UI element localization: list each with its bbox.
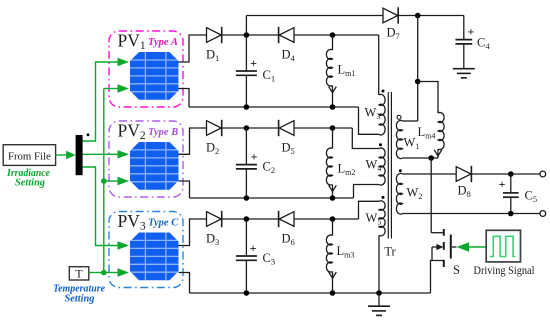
MOSFET S drain contact — [443, 229, 445, 236]
svg-text:C4: C4 — [477, 36, 490, 52]
Lm4 current arrow — [434, 150, 442, 156]
node C1 bottom junction — [244, 104, 250, 110]
junction dot T to PV3 — [101, 270, 107, 276]
wire W1 bottom to Lm4 bottom — [403, 157, 439, 159]
capacitor C2 branch wire top — [245, 128, 247, 165]
node Lm1 bottom junction — [330, 104, 336, 110]
svg-text:Lm3: Lm3 — [337, 244, 355, 260]
inductor Lm1 — [326, 49, 332, 86]
top rail wire to D7 — [246, 15, 383, 17]
node T3 junction — [330, 216, 336, 222]
node W1/Lm4 top junction — [415, 79, 421, 85]
wire From File to demux — [56, 154, 67, 156]
winding W1 — [396, 120, 402, 158]
wire D5 to node T2 — [295, 127, 353, 129]
svg-text:W2: W2 — [407, 186, 423, 202]
capacitor C4 — [455, 39, 472, 41]
temperature bus vertical wire — [103, 89, 105, 273]
row2 bottom rail wire — [190, 197, 354, 199]
node C5 top junction — [508, 171, 514, 177]
capacitor C1 branch wire top — [245, 35, 247, 71]
arrow temperature into PV3 — [118, 268, 130, 276]
node A1 junction — [244, 32, 250, 38]
wire C4 to ground — [463, 44, 465, 56]
capacitor C3 — [236, 255, 257, 257]
junction top rail / secondary bus — [415, 13, 421, 19]
wire demux out1 — [83, 62, 118, 141]
inductor Lm2 top stub — [332, 128, 334, 149]
W4 polarity dot — [379, 143, 382, 146]
winding W3 — [379, 94, 385, 134]
node Lm2 bottom junction — [330, 195, 336, 201]
wire D3 to node A3 — [222, 218, 279, 220]
winding W2 — [396, 173, 402, 214]
svg-text:Setting: Setting — [65, 292, 95, 304]
winding W4 — [379, 148, 385, 185]
arrow temperature into PV1 — [118, 84, 130, 92]
wire drain lead — [431, 232, 444, 234]
transformer core — [387, 92, 389, 239]
capacitor C2 branch wire bottom — [245, 169, 247, 198]
node C2 bottom junction — [244, 195, 250, 201]
wire D6 to node T3 — [295, 218, 359, 220]
wire drive signal to gate — [469, 246, 486, 248]
inductor Lm4 — [438, 112, 444, 149]
green gate drive arrow — [457, 242, 470, 252]
row1 bottom rail wire — [189, 106, 359, 108]
inductor Lm2 — [326, 148, 332, 185]
node C5 bottom junction — [508, 211, 514, 217]
svg-text:From File: From File — [8, 150, 51, 162]
node T1 junction — [330, 32, 336, 38]
svg-text:Type A: Type A — [148, 37, 178, 48]
arrow into demux — [66, 151, 76, 160]
wire bus to W1 top — [403, 120, 418, 122]
wire PV3 plus terminal stub — [179, 219, 207, 246]
wire W5 bottom to ground rail — [378, 235, 380, 293]
svg-text:W3: W3 — [365, 106, 381, 122]
diode D1 — [207, 28, 222, 43]
gate lead stub — [452, 246, 457, 248]
PV module PV3 dashed box (Type C) — [109, 212, 183, 288]
wire junction to Lm4 top — [418, 82, 438, 114]
svg-text:+: + — [250, 56, 257, 70]
diode D8 — [456, 167, 471, 182]
svg-text:D4: D4 — [282, 48, 296, 64]
wire row1 rail to W3 bottom — [359, 107, 380, 134]
diode D4 — [278, 27, 280, 43]
wire W4 bottom to row2 rail — [354, 185, 380, 199]
svg-text:D2: D2 — [206, 141, 219, 157]
wire PV1 minus terminal stub — [179, 89, 190, 108]
capacitor C3 branch wire bottom — [245, 260, 247, 293]
secondary bus wire from top rail — [417, 16, 419, 122]
arrow temperature into PV2 — [118, 177, 130, 185]
svg-text:D8: D8 — [458, 184, 471, 200]
svg-text:+: + — [251, 149, 258, 163]
T temperature source block — [69, 267, 89, 280]
svg-text:S: S — [453, 263, 460, 277]
wire PV1 plus terminal stub — [179, 35, 207, 62]
arrow irradiance into PV2 — [118, 150, 130, 158]
inductor Lm1 top stub — [332, 35, 334, 50]
wire T1 down to winding W3 — [378, 35, 380, 95]
wire demux out3 — [83, 167, 118, 246]
svg-text:Type B: Type B — [148, 127, 178, 138]
W3 polarity dot — [382, 90, 385, 93]
Driving Signal scope block — [486, 230, 520, 262]
wire body to source — [431, 247, 433, 261]
PV module PV1 dashed box (Type A) — [109, 31, 183, 107]
output terminal plus — [540, 171, 546, 177]
arrow irradiance into PV3 — [118, 241, 130, 249]
node T2 junction — [330, 125, 336, 131]
PV module PV2 dashed box (Type B) — [109, 121, 183, 197]
inductor Lm3 top stub — [332, 219, 334, 236]
Lm2 current arrow — [329, 185, 337, 191]
wire PV3 minus terminal stub — [179, 273, 190, 294]
svg-text:D7: D7 — [387, 26, 400, 42]
svg-text:+: + — [250, 241, 257, 255]
square wave icon — [490, 236, 516, 256]
wire D8 to C5 — [472, 173, 540, 175]
capacitor C3 branch wire top — [245, 219, 247, 256]
MOSFET body arrow — [432, 246, 438, 248]
svg-text:C2: C2 — [263, 160, 276, 176]
wire W2 top to D8 — [403, 173, 457, 175]
svg-text:Lm2: Lm2 — [338, 162, 356, 178]
svg-text:Lm1: Lm1 — [338, 63, 356, 79]
ground rail wire — [190, 292, 431, 294]
svg-text:PV1: PV1 — [118, 31, 146, 53]
diode D2 — [207, 121, 222, 136]
wire T3 up to winding W5 top — [359, 201, 380, 219]
wire C5 branch bottom — [510, 197, 512, 213]
wire D4 to node T1 — [295, 34, 379, 36]
node Lm3 bottom junction — [330, 290, 336, 296]
node A2 junction — [244, 125, 250, 131]
svg-text:D1: D1 — [206, 48, 219, 64]
MOSFET S source contact — [443, 260, 445, 267]
svg-text:Driving Signal: Driving Signal — [474, 265, 535, 277]
W5 polarity dot — [382, 196, 385, 199]
wire D2 to node A2 — [222, 127, 279, 129]
capacitor C1 branch wire bottom — [245, 75, 247, 107]
winding W5 — [379, 201, 385, 236]
svg-text:Tr: Tr — [384, 245, 396, 259]
svg-text:PV3: PV3 — [118, 211, 146, 233]
Lm1 current arrow — [329, 87, 337, 93]
svg-text:D3: D3 — [206, 232, 219, 248]
output terminal minus — [540, 211, 546, 217]
diode D6 — [278, 211, 280, 227]
node W1/Lm4 bottom junction — [428, 155, 434, 161]
wire PV2 plus terminal stub — [179, 128, 207, 154]
wire junction down to switch drain — [430, 158, 432, 233]
diode D7 — [383, 8, 398, 23]
svg-text:Setting: Setting — [15, 176, 45, 188]
demux bar (irradiance splitter) — [76, 135, 83, 175]
junction dot T to PV2 — [101, 178, 107, 184]
svg-text:W5: W5 — [366, 211, 382, 227]
annotation dot above demux — [87, 133, 90, 136]
svg-text:C5: C5 — [525, 189, 538, 205]
node C3 bottom junction — [244, 290, 250, 296]
arrow irradiance into PV1 — [118, 58, 130, 66]
ground symbol main — [378, 293, 380, 306]
svg-text:Type C: Type C — [148, 217, 179, 228]
wire T2 to winding W4 top — [352, 128, 379, 149]
Lm3 current arrow — [329, 272, 337, 278]
capacitor C1 — [236, 70, 257, 72]
MOSFET S body contact — [443, 242, 445, 250]
wire PV2 minus terminal stub — [179, 181, 190, 198]
From File source block — [3, 145, 55, 166]
wire T into PV1 — [104, 88, 118, 90]
ground below C4 — [463, 56, 465, 69]
wire T to junction — [89, 272, 104, 274]
node W5/ground junction — [376, 290, 382, 296]
wire source lead — [431, 261, 444, 294]
wire T into PV2 — [104, 180, 118, 182]
svg-text:C3: C3 — [263, 251, 276, 267]
wire D1 to node A1 — [222, 34, 279, 36]
svg-text:Lm4: Lm4 — [418, 125, 436, 141]
diode D3 — [207, 212, 222, 227]
svg-text:D5: D5 — [282, 141, 295, 157]
capacitor C2 — [236, 164, 257, 166]
W2 polarity dot — [399, 169, 402, 172]
svg-text:+: + — [499, 177, 506, 191]
svg-text:+: + — [467, 24, 474, 38]
svg-text:W4: W4 — [366, 158, 382, 174]
inductor Lm3 — [326, 235, 332, 272]
wire down to capacitor C4 — [463, 16, 465, 40]
wire W2 bottom output rail — [403, 213, 541, 215]
svg-text:C1: C1 — [263, 68, 276, 84]
node A3 junction — [244, 216, 250, 222]
wire demux out2 — [83, 153, 118, 155]
capacitor C5 — [503, 192, 519, 194]
svg-text:PV2: PV2 — [118, 121, 146, 143]
W1 polarity circle — [397, 115, 401, 119]
wire T into PV3 — [104, 272, 118, 274]
wire C5 branch top — [510, 174, 512, 193]
svg-text:T: T — [75, 267, 83, 281]
wire node A1 up to top rail — [245, 16, 247, 36]
svg-text:D6: D6 — [282, 232, 295, 248]
MOSFET S gate bar — [450, 235, 452, 259]
diode D5 — [278, 120, 280, 136]
wire D7 to C4 branch — [399, 15, 464, 17]
